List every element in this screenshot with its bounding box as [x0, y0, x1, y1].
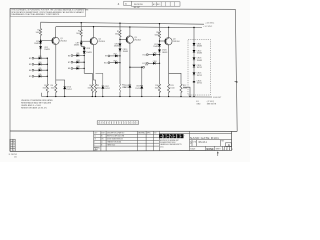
- svg-text:SEE SHT: SEE SHT: [134, 7, 140, 9]
- resistor R1: [39, 29, 41, 36]
- wire +3.6V rail: [41, 22, 204, 24]
- border frame: [10, 8, 237, 151]
- diode CR24: [193, 65, 196, 68]
- svg-text:1N483: 1N483: [74, 45, 79, 47]
- diode CR1: [39, 41, 42, 44]
- svg-text:E3: E3: [29, 64, 31, 66]
- transistor Q4: [160, 40, 166, 42]
- diode CR20: [158, 49, 161, 52]
- svg-text:4: 4: [118, 2, 120, 6]
- svg-text:CR4: CR4: [38, 62, 41, 64]
- svg-text:1N752: 1N752: [197, 67, 202, 69]
- svg-text:1500: 1500: [87, 87, 91, 89]
- diode CR26: [193, 81, 196, 82]
- svg-text:Q1: Q1: [13, 147, 15, 149]
- resistor R3: [80, 30, 82, 37]
- svg-text:1N752: 1N752: [197, 83, 202, 85]
- svg-text:R: R: [184, 134, 185, 136]
- diode CR18: [128, 85, 131, 88]
- wire bus to R6: [84, 73, 92, 84]
- svg-text:CR3: CR3: [38, 56, 41, 58]
- svg-text:E4: E4: [29, 70, 31, 72]
- svg-text:1N483: 1N483: [197, 60, 202, 62]
- svg-text:TERM STUD: TERM STUD: [107, 144, 115, 146]
- svg-text:1N483: 1N483: [86, 52, 91, 54]
- revision block (top right, above border): [118, 1, 180, 9]
- svg-text:1 1 1 1: 1 1 1 1: [223, 149, 234, 151]
- svg-text:A: A: [125, 3, 127, 6]
- svg-text:E1: E1: [13, 150, 15, 152]
- svg-text:N: N: [10, 147, 11, 149]
- resistor R4: [55, 84, 57, 97]
- diode CR22: [193, 50, 196, 53]
- fold arrow under title block: [217, 153, 219, 156]
- svg-text:N: N: [10, 143, 11, 145]
- svg-text:1N483: 1N483: [34, 43, 39, 45]
- left small table: [10, 139, 15, 151]
- resistor R11: [168, 84, 170, 97]
- logo cell: [189, 131, 191, 150]
- svg-text:2N1304: 2N1304: [173, 41, 179, 43]
- svg-text:CR: CR: [101, 139, 103, 141]
- diode CR8A on bus: [83, 51, 86, 54]
- svg-text:C1: C1: [13, 145, 15, 147]
- diode CR16: [56, 80, 65, 97]
- diode CR7: [80, 42, 83, 45]
- svg-text:R2: R2: [13, 143, 15, 145]
- wire emitter Q3 to terminal: [130, 67, 142, 97]
- svg-text:A DIVISION OF GENERAL INST: A DIVISION OF GENERAL INST: [160, 139, 179, 142]
- svg-text:UNLESS OTHERWISE INDICATED: UNLESS OTHERWISE INDICATED: [21, 99, 53, 102]
- svg-text:REV: REV: [221, 141, 224, 143]
- svg-text:CR10: CR10: [76, 60, 80, 62]
- resistor R12: [169, 73, 181, 84]
- svg-text:4 61: 4 61: [14, 156, 17, 158]
- svg-text:OHMS: AND K = 1000: OHMS: AND K = 1000: [21, 104, 42, 107]
- svg-text:+1.2 VDC: +1.2 VDC: [203, 26, 212, 28]
- svg-text:E14 OUT: E14 OUT: [213, 97, 222, 99]
- svg-text:1N752: 1N752: [104, 88, 109, 90]
- diode CR25: [193, 72, 196, 75]
- svg-text:MATERIAL: MATERIAL: [138, 132, 145, 135]
- diode CR13: [119, 48, 122, 51]
- svg-text:1N483: 1N483: [123, 51, 128, 53]
- diode CR19: [158, 44, 161, 47]
- transistor Q3: [120, 38, 127, 40]
- svg-text:SEE NOTE: SEE NOTE: [207, 103, 217, 105]
- diode CR12: [119, 43, 122, 46]
- svg-text:N: N: [10, 145, 11, 147]
- svg-text:GRD: GRD: [196, 103, 201, 105]
- svg-text:0711: 0711: [193, 141, 197, 143]
- svg-text:RES FIX COMP 5600 OHM: RES FIX COMP 5600 OHM: [107, 136, 125, 138]
- diode CR21: [193, 43, 196, 46]
- svg-text:5600: 5600: [36, 32, 40, 34]
- svg-text:1N483: 1N483: [44, 49, 49, 51]
- svg-text:2N1304: 2N1304: [60, 41, 66, 43]
- wire R3 chain: [81, 23, 84, 74]
- svg-text:QTY: QTY: [94, 133, 97, 135]
- svg-text:CR11: CR11: [76, 66, 80, 68]
- svg-text:5600: 5600: [155, 34, 159, 36]
- svg-text:5600: 5600: [76, 33, 80, 35]
- svg-text:DIAGRAM AND ON ACTUAL ASSEMBLY: DIAGRAM AND ON ACTUAL ASSEMBLY COMPONENT…: [11, 13, 60, 16]
- svg-text:SPEC: SPEC: [147, 133, 151, 135]
- resistor R10: [158, 84, 160, 93]
- svg-text:+3.6 VDC: +3.6 VDC: [205, 23, 214, 25]
- diode CR2: [39, 46, 42, 49]
- svg-text:E9: E9: [105, 56, 107, 58]
- svg-text:1N752: 1N752: [197, 75, 202, 77]
- svg-text:D: D: [190, 140, 192, 144]
- svg-text:1N483: 1N483: [114, 46, 119, 48]
- svg-text:CR15: CR15: [153, 52, 157, 54]
- svg-text:E7: E7: [68, 62, 70, 64]
- wire +1.2V rail: [56, 26, 202, 27]
- svg-text:REVISIONS: REVISIONS: [134, 4, 143, 6]
- svg-text:1N483: 1N483: [197, 53, 202, 55]
- svg-text:CR5: CR5: [38, 68, 41, 70]
- svg-text:R1: R1: [13, 140, 15, 142]
- svg-text:18: 18: [94, 139, 96, 141]
- diode CR27: [140, 86, 143, 89]
- svg-text:CR9: CR9: [76, 53, 79, 55]
- svg-text:U S A: U S A: [160, 146, 163, 149]
- svg-text:E10: E10: [104, 63, 107, 65]
- zone arrow right border: [234, 81, 238, 83]
- dashed box: [188, 40, 211, 96]
- transistor Q2: [81, 40, 91, 42]
- terminal E13: [143, 66, 145, 68]
- svg-text:DESCRIPTION & PART NO: DESCRIPTION & PART NO: [107, 132, 125, 135]
- svg-text:CR8: CR8: [86, 48, 90, 50]
- title block: [10, 131, 234, 152]
- svg-text:CR6: CR6: [38, 74, 41, 76]
- svg-text:1500: 1500: [97, 87, 101, 89]
- svg-text:1500: 1500: [155, 87, 159, 89]
- svg-text:1N483: 1N483: [197, 46, 202, 48]
- svg-text:1234567890123456: 1234567890123456: [98, 123, 138, 125]
- svg-text:SHEET: SHEET: [216, 149, 221, 151]
- svg-text:N: N: [10, 140, 11, 142]
- resistor R8: [119, 84, 121, 92]
- wire R1 chain: [41, 22, 48, 84]
- svg-text:N: N: [10, 150, 11, 152]
- svg-text:E6: E6: [68, 55, 70, 57]
- svg-text:1500: 1500: [42, 87, 46, 89]
- svg-text:CR21: CR21: [113, 54, 117, 56]
- svg-text:NONE: NONE: [206, 148, 214, 151]
- svg-text:D 2107-R: D 2107-R: [9, 154, 18, 156]
- bottom-left notes: [21, 99, 53, 110]
- svg-text:DIODE 1N483 SEMICON: DIODE 1N483 SEMICON: [107, 139, 123, 141]
- svg-text:R: R: [101, 136, 102, 138]
- svg-text:SCALE: SCALE: [190, 148, 195, 151]
- svg-text:1N752: 1N752: [135, 88, 140, 90]
- svg-text:R6-43-1: R6-43-1: [199, 142, 208, 144]
- svg-text:E: E: [101, 144, 102, 146]
- logo: [159, 134, 183, 138]
- diode CR23: [193, 57, 196, 60]
- general notes box (top left): [10, 8, 89, 16]
- resistor R7: [119, 30, 121, 37]
- transistor Q1: [41, 39, 53, 41]
- svg-text:CR22: CR22: [113, 60, 117, 62]
- resistor R9: [158, 31, 160, 38]
- wire diode chain: [193, 28, 195, 97]
- wire R7 chain: [119, 23, 121, 97]
- item number strip: [97, 121, 138, 125]
- svg-text:CR16: CR16: [153, 61, 157, 63]
- svg-text:1500: 1500: [170, 87, 174, 89]
- diode CR17: [96, 73, 103, 97]
- svg-text:5600: 5600: [115, 33, 119, 35]
- diode CR8 on bus: [83, 48, 86, 51]
- resistor R5: [94, 84, 96, 97]
- svg-text:E5: E5: [29, 76, 31, 78]
- svg-text:2N1304: 2N1304: [134, 39, 140, 41]
- svg-text:TRANSISTOR 2N1304: TRANSISTOR 2N1304: [107, 141, 121, 144]
- svg-text:1500: 1500: [183, 87, 187, 89]
- parts list table: [94, 131, 160, 151]
- svg-text:RESISTORS ARE 1/4 W, 5%: RESISTORS ARE 1/4 W, 5%: [21, 107, 47, 110]
- svg-text:1N752: 1N752: [123, 87, 128, 89]
- svg-text:1N483: 1N483: [162, 52, 167, 54]
- wire R9 chain: [159, 24, 161, 97]
- resistor R6: [91, 84, 93, 97]
- svg-text:1N483: 1N483: [153, 46, 158, 48]
- svg-text:E11: E11: [143, 55, 146, 57]
- resistor R2: [46, 84, 48, 97]
- svg-text:2N1304: 2N1304: [98, 41, 104, 43]
- svg-text:NAND GATE R101: NAND GATE R101: [190, 136, 219, 140]
- svg-text:E8: E8: [68, 68, 70, 70]
- svg-text:RESISTANCE AND NET VALUES: RESISTANCE AND NET VALUES: [21, 101, 52, 104]
- svg-text:1N752: 1N752: [66, 89, 71, 91]
- svg-text:E12: E12: [143, 63, 146, 65]
- wire ground rail: [41, 93, 212, 97]
- svg-text:1500: 1500: [51, 87, 55, 89]
- svg-text:12: 12: [94, 136, 96, 138]
- wire step: [183, 87, 190, 97]
- svg-text:E2: E2: [29, 58, 31, 60]
